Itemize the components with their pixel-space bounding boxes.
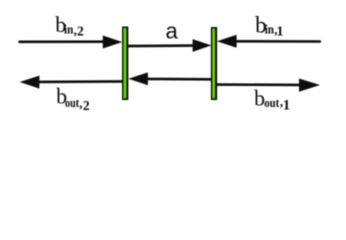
svg-text:1: 1: [277, 25, 284, 40]
wire arrow b_in,2 (top left, pointing right into left mirror): [20, 36, 123, 49]
intracavity return arrow (pointing left into left mirror): [128, 72, 211, 85]
mirror M1 (right, black outline with green core): [211, 27, 217, 100]
svg-text:2: 2: [83, 98, 90, 113]
svg-text:out: out: [264, 96, 280, 110]
svg-text:1: 1: [283, 97, 290, 113]
wire arrow b_in,1 (top right, pointing left into right mirror): [217, 35, 320, 48]
intracavity arrow a (pointing right into right mirror): [128, 39, 211, 52]
label b_out,2: [56, 83, 90, 113]
label b_out,1: [254, 87, 290, 114]
mirror M2 (left, black outline with green core): [122, 27, 128, 101]
svg-text:a: a: [166, 19, 179, 44]
svg-text:in: in: [64, 23, 73, 37]
svg-text:out: out: [65, 96, 80, 110]
label b_in,2: [55, 12, 84, 38]
wire arrow b_out,1 (bottom right, pointing right away from right mirror): [215, 79, 320, 92]
label b_in,1: [255, 13, 283, 40]
svg-text:in: in: [265, 23, 274, 37]
svg-text:2: 2: [77, 23, 84, 38]
wire arrow b_out,2 (bottom left, pointing left away from left mirror): [20, 76, 122, 89]
